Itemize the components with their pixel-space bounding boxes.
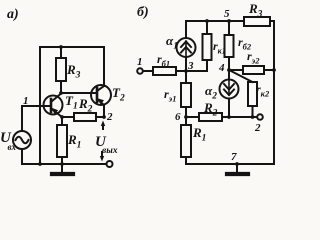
node dot rk1 top: [205, 19, 209, 23]
node 2 junction dot: [102, 115, 106, 119]
wire: R2b to terminal 2: [222, 116, 257, 118]
svg-text:α2: α2: [205, 83, 217, 102]
node 5 dot: [227, 19, 231, 23]
resistor re2: [229, 69, 243, 71]
svg-text:R1: R1: [67, 132, 81, 151]
wire: right rail: [273, 21, 275, 164]
svg-text:rэ1: rэ1: [164, 87, 176, 104]
wire: diagonal node4 to rk2: [229, 70, 253, 82]
source a2: [228, 70, 230, 80]
node 3 dot: [184, 69, 188, 73]
node junction dot R1-bottom: [60, 162, 64, 166]
wire: top rail a: [40, 46, 104, 48]
node dot re2/rail: [272, 68, 276, 72]
svg-text:а): а): [7, 7, 19, 22]
transistor T2: [91, 85, 111, 105]
source Uvx: [13, 131, 31, 149]
wire: bottom rail a: [22, 163, 106, 165]
resistor R2 b: [186, 116, 199, 118]
svg-text:1: 1: [23, 95, 29, 107]
wire: T2 collector up to rail: [103, 47, 105, 86]
svg-text:1: 1: [137, 56, 143, 68]
ground: [61, 164, 63, 172]
svg-text:6: 6: [175, 111, 181, 123]
svg-text:2: 2: [254, 122, 261, 134]
node dot alpha2 bottom: [227, 115, 231, 119]
resistor R1: [61, 117, 63, 125]
terminal circle output a: [107, 161, 113, 167]
wire: top rail b: [186, 20, 244, 22]
wire: left rail a: [39, 47, 41, 164]
svg-text:rэ2: rэ2: [247, 49, 260, 66]
arrow Uvyx bottom: [101, 152, 103, 156]
wire: node A to T2 base: [61, 92, 97, 94]
svg-text:R2: R2: [203, 100, 218, 119]
svg-text:R2: R2: [78, 96, 93, 115]
node junction dot emitter T1: [60, 115, 64, 119]
node junction dot left-rail/bottom: [38, 162, 42, 166]
svg-text:вх: вх: [8, 142, 17, 152]
terminal 2 b: [257, 114, 263, 120]
resistor rb1: [143, 70, 153, 72]
resistor rk2: [248, 82, 257, 106]
wire: source to bottom rail: [21, 149, 23, 164]
node dot rk2 bottom: [251, 115, 255, 119]
svg-text:б): б): [137, 5, 149, 20]
resistor R3: [59, 45, 63, 49]
node 7 dot: [235, 162, 239, 166]
svg-text:вых: вых: [102, 146, 118, 156]
svg-text:rк2: rк2: [256, 82, 270, 99]
svg-text:2: 2: [106, 111, 113, 123]
node A dot (R3 bottom / T1 collector / T2 base): [59, 91, 63, 95]
svg-text:α1: α1: [166, 33, 178, 52]
resistor re1: [185, 71, 187, 83]
node 6 dot: [184, 115, 188, 119]
svg-text:5: 5: [224, 8, 230, 20]
transistor T1: [44, 96, 63, 115]
wire: bottom rail b: [186, 163, 274, 165]
terminal 1 b: [137, 68, 143, 74]
svg-text:T1: T1: [65, 93, 78, 112]
ground b: [236, 164, 238, 172]
svg-text:3: 3: [187, 60, 194, 72]
svg-text:7: 7: [231, 151, 237, 163]
svg-text:T2: T2: [112, 85, 125, 104]
wire: R3b right to corner: [270, 20, 274, 22]
resistor R1 b: [185, 117, 187, 125]
wire: input corner down to source: [21, 106, 23, 131]
resistor rk1: [206, 21, 208, 34]
source a1: [185, 21, 187, 38]
arrow Uvyx top: [102, 124, 104, 129]
wire: input to T1 base: [22, 105, 51, 107]
svg-text:4: 4: [218, 62, 225, 74]
wire: T2 emitter down: [103, 105, 105, 117]
resistor R3 b: [244, 17, 270, 26]
node 4 dot: [227, 68, 231, 72]
svg-text:R3: R3: [66, 62, 81, 81]
resistor rb2: [228, 21, 230, 35]
svg-text:R1: R1: [192, 125, 206, 144]
resistor R2: [62, 116, 74, 118]
